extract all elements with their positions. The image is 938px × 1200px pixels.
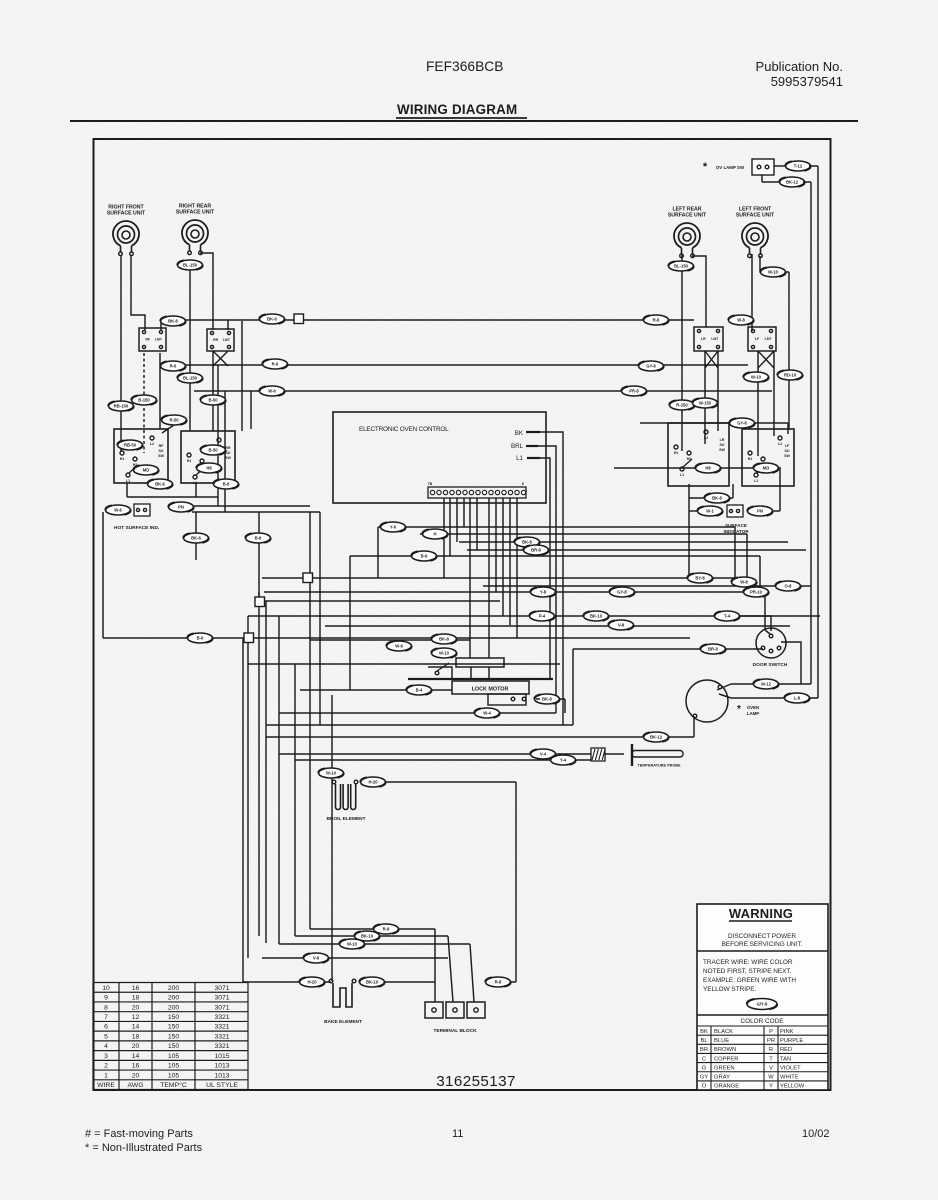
svg-text:BK-12: BK-12 xyxy=(650,735,663,740)
svg-text:L1: L1 xyxy=(516,455,523,462)
svg-text:C: C xyxy=(702,1056,706,1062)
svg-text:W-10: W-10 xyxy=(347,942,358,947)
svg-text:L2: L2 xyxy=(150,442,154,446)
svg-text:BK-12: BK-12 xyxy=(786,180,799,185)
svg-text:TRACER WIRE: WIRE COLOR: TRACER WIRE: WIRE COLOR xyxy=(703,959,793,966)
svg-text:1013: 1013 xyxy=(214,1072,229,1079)
svg-text:UL STYLE: UL STYLE xyxy=(206,1082,238,1089)
svg-text:L2: L2 xyxy=(778,442,782,446)
svg-text:W-8: W-8 xyxy=(740,580,748,585)
svg-text:10: 10 xyxy=(102,985,110,992)
svg-text:RED: RED xyxy=(780,1047,792,1053)
svg-text:PR-8: PR-8 xyxy=(629,389,639,394)
svg-text:DISCONNECT POWER: DISCONNECT POWER xyxy=(728,933,796,940)
svg-text:W-1: W-1 xyxy=(706,509,714,514)
svg-text:3321: 3321 xyxy=(214,1014,229,1021)
svg-text:TEMPERATURE PROBE: TEMPERATURE PROBE xyxy=(637,764,681,768)
svg-text:BK-10: BK-10 xyxy=(366,980,379,985)
svg-text:RB-150: RB-150 xyxy=(114,404,129,409)
svg-text:TEMP°C: TEMP°C xyxy=(160,1081,187,1089)
svg-text:18: 18 xyxy=(132,995,140,1002)
svg-text:BL-150: BL-150 xyxy=(674,264,689,269)
svg-text:BR: BR xyxy=(700,1047,708,1053)
svg-text:3321: 3321 xyxy=(214,1024,229,1031)
svg-text:BEFORE SERVICING UNIT.: BEFORE SERVICING UNIT. xyxy=(722,941,803,948)
svg-text:BK-10: BK-10 xyxy=(361,934,374,939)
svg-text:3071: 3071 xyxy=(214,995,229,1002)
svg-text:L1: L1 xyxy=(754,479,758,483)
svg-text:H-20: H-20 xyxy=(307,980,317,985)
svg-text:G/Y-8: G/Y-8 xyxy=(757,1002,768,1007)
svg-text:B-50: B-50 xyxy=(208,398,218,403)
svg-text:L1: L1 xyxy=(193,481,197,485)
svg-text:14: 14 xyxy=(132,1024,140,1031)
svg-text:SURFACE UNIT: SURFACE UNIT xyxy=(668,213,707,219)
svg-text:R: R xyxy=(769,1047,773,1053)
svg-text:EXAMPLE: GREEN WIRE WITH: EXAMPLE: GREEN WIRE WITH xyxy=(703,977,796,984)
svg-text:O-8: O-8 xyxy=(785,584,793,589)
svg-text:SU: SU xyxy=(159,449,164,453)
svg-text:3: 3 xyxy=(104,1053,108,1060)
svg-text:WIRE: WIRE xyxy=(97,1082,115,1089)
svg-text:BK: BK xyxy=(515,430,524,437)
svg-text:B-6: B-6 xyxy=(197,636,204,641)
svg-text:P-4: P-4 xyxy=(539,614,546,619)
svg-text:PR: PR xyxy=(767,1038,775,1044)
svg-text:3071: 3071 xyxy=(214,985,229,992)
svg-text:SURFACE UNIT: SURFACE UNIT xyxy=(176,210,215,216)
svg-text:150: 150 xyxy=(168,1024,180,1031)
svg-text:T-4: T-4 xyxy=(724,614,731,619)
svg-text:SU: SU xyxy=(785,449,790,453)
svg-text:BL-150: BL-150 xyxy=(183,376,198,381)
svg-text:12: 12 xyxy=(132,1014,140,1021)
svg-text:200: 200 xyxy=(168,1004,180,1011)
svg-text:105: 105 xyxy=(168,1063,180,1070)
svg-text:W-10: W-10 xyxy=(768,270,779,275)
svg-text:GY: GY xyxy=(700,1075,709,1081)
svg-text:R-150: R-150 xyxy=(676,403,688,408)
svg-text:SU: SU xyxy=(720,443,725,447)
svg-text:BY-8: BY-8 xyxy=(695,576,705,581)
svg-text:B-50: B-50 xyxy=(208,448,218,453)
svg-text:200: 200 xyxy=(168,985,180,992)
svg-text:BK-10: BK-10 xyxy=(590,614,603,619)
svg-text:3321: 3321 xyxy=(214,1043,229,1050)
svg-text:H8: H8 xyxy=(206,466,212,471)
svg-text:H: H xyxy=(433,532,436,537)
svg-text:BROWN: BROWN xyxy=(714,1047,736,1053)
svg-text:B-6: B-6 xyxy=(421,554,428,559)
svg-text:BLUE: BLUE xyxy=(714,1038,729,1044)
svg-text:COPPER: COPPER xyxy=(714,1056,738,1062)
svg-text:W-150: W-150 xyxy=(699,401,712,406)
svg-text:1015: 1015 xyxy=(214,1053,229,1060)
svg-text:# = Fast-moving Parts: # = Fast-moving Parts xyxy=(85,1128,193,1140)
svg-text:LMT: LMT xyxy=(223,338,231,342)
svg-text:LR: LR xyxy=(701,337,706,341)
svg-text:WARNING: WARNING xyxy=(729,906,793,921)
svg-text:3071: 3071 xyxy=(214,1004,229,1011)
svg-text:V-8: V-8 xyxy=(313,956,320,961)
svg-text:5995379541: 5995379541 xyxy=(771,74,843,89)
svg-text:LAMP: LAMP xyxy=(747,711,760,716)
svg-text:LMT: LMT xyxy=(155,338,163,342)
svg-text:NOTED FIRST, STRIPE NEXT.: NOTED FIRST, STRIPE NEXT. xyxy=(703,968,792,975)
svg-text:GRAY: GRAY xyxy=(714,1075,730,1081)
svg-text:WHITE: WHITE xyxy=(780,1075,799,1081)
svg-text:SW: SW xyxy=(158,454,164,458)
svg-text:BROIL ELEMENT: BROIL ELEMENT xyxy=(326,816,365,822)
svg-text:SW: SW xyxy=(784,454,790,458)
svg-text:BL: BL xyxy=(700,1038,708,1044)
svg-text:BLACK: BLACK xyxy=(714,1029,733,1035)
svg-text:RR: RR xyxy=(213,338,218,342)
svg-text:H1: H1 xyxy=(674,451,679,455)
svg-text:L1: L1 xyxy=(126,479,130,483)
svg-text:150: 150 xyxy=(168,1043,180,1050)
svg-text:H1: H1 xyxy=(120,457,125,461)
svg-text:9: 9 xyxy=(104,995,108,1002)
svg-text:LMT: LMT xyxy=(765,337,773,341)
svg-text:1013: 1013 xyxy=(214,1063,229,1070)
svg-text:R-6: R-6 xyxy=(170,364,177,369)
svg-text:OV LAMP SW: OV LAMP SW xyxy=(716,165,745,170)
svg-text:SW: SW xyxy=(225,456,231,460)
svg-text:T-12: T-12 xyxy=(794,164,803,169)
svg-text:INDICATOR: INDICATOR xyxy=(723,529,749,534)
svg-text:R-8: R-8 xyxy=(383,927,390,932)
svg-text:B-150: B-150 xyxy=(138,398,150,403)
svg-text:PN: PN xyxy=(178,505,184,510)
svg-text:PINK: PINK xyxy=(780,1029,794,1035)
svg-text:*: * xyxy=(737,704,741,715)
svg-text:H8: H8 xyxy=(705,466,711,471)
svg-text:7: 7 xyxy=(104,1014,108,1021)
svg-text:18: 18 xyxy=(132,1033,140,1040)
svg-text:TERMINAL BLOCK: TERMINAL BLOCK xyxy=(433,1028,477,1034)
svg-text:200: 200 xyxy=(168,995,180,1002)
svg-text:1: 1 xyxy=(104,1072,108,1079)
svg-text:COLOR CODE: COLOR CODE xyxy=(741,1018,784,1025)
svg-text:BK-6: BK-6 xyxy=(155,482,165,487)
svg-text:2: 2 xyxy=(104,1063,108,1070)
svg-text:3321: 3321 xyxy=(214,1033,229,1040)
svg-text:10/02: 10/02 xyxy=(802,1128,830,1140)
svg-text:L-8: L-8 xyxy=(794,696,801,701)
svg-text:YELLOW: YELLOW xyxy=(780,1084,805,1090)
svg-text:H1: H1 xyxy=(748,457,753,461)
svg-text:AWG: AWG xyxy=(128,1082,144,1089)
svg-text:SW: SW xyxy=(719,448,725,452)
svg-text:OVEN: OVEN xyxy=(747,705,759,710)
svg-text:W-6: W-6 xyxy=(395,644,403,649)
svg-text:PURPLE: PURPLE xyxy=(780,1038,803,1044)
svg-text:O: O xyxy=(702,1084,707,1090)
svg-text:T: T xyxy=(769,1056,773,1062)
svg-text:V-8: V-8 xyxy=(618,623,625,628)
svg-text:RB-50: RB-50 xyxy=(124,443,137,448)
svg-text:R-6: R-6 xyxy=(272,362,279,367)
svg-text:B-4: B-4 xyxy=(416,688,423,693)
svg-text:SURFACE UNIT: SURFACE UNIT xyxy=(736,213,775,219)
svg-text:HOT SURFACE IND.: HOT SURFACE IND. xyxy=(114,525,159,531)
svg-text:RD-10: RD-10 xyxy=(784,373,797,378)
svg-text:150: 150 xyxy=(168,1033,180,1040)
svg-text:W-12: W-12 xyxy=(761,682,772,687)
svg-text:R-8: R-8 xyxy=(653,318,660,323)
svg-text:GY-8: GY-8 xyxy=(617,590,627,595)
svg-text:Y-6: Y-6 xyxy=(390,525,397,530)
svg-text:* = Non-Illustrated Parts: * = Non-Illustrated Parts xyxy=(85,1142,203,1154)
svg-text:ORANGE: ORANGE xyxy=(714,1084,739,1090)
svg-text:105: 105 xyxy=(168,1053,180,1060)
svg-text:W-8: W-8 xyxy=(737,318,745,323)
svg-text:ELECTRONIC OVEN CONTROL: ELECTRONIC OVEN CONTROL xyxy=(359,426,449,433)
svg-text:H-20: H-20 xyxy=(368,780,378,785)
svg-text:Y-4: Y-4 xyxy=(560,758,567,763)
svg-text:W: W xyxy=(768,1075,774,1081)
svg-text:16: 16 xyxy=(132,1063,140,1070)
svg-text:YELLOW STRIPE.: YELLOW STRIPE. xyxy=(703,986,756,993)
svg-text:R-50: R-50 xyxy=(169,418,179,423)
svg-text:BK-6: BK-6 xyxy=(191,536,201,541)
svg-text:WIRING DIAGRAM: WIRING DIAGRAM xyxy=(397,102,517,117)
svg-text:*: * xyxy=(703,161,708,173)
svg-text:FEF366BCB: FEF366BCB xyxy=(426,59,503,74)
svg-text:BK-6: BK-6 xyxy=(267,317,277,322)
svg-text:4: 4 xyxy=(104,1043,108,1050)
svg-text:GREEN: GREEN xyxy=(714,1065,735,1071)
svg-text:L1: L1 xyxy=(680,473,684,477)
svg-text:TAN: TAN xyxy=(780,1056,791,1062)
svg-text:B-6: B-6 xyxy=(223,482,230,487)
svg-text:105: 105 xyxy=(168,1072,180,1079)
svg-text:SURFACE: SURFACE xyxy=(725,523,747,528)
svg-text:TB: TB xyxy=(428,482,433,486)
svg-text:LR: LR xyxy=(720,438,725,442)
svg-text:20: 20 xyxy=(132,1043,140,1050)
svg-text:MD: MD xyxy=(763,466,770,471)
svg-text:Y-8: Y-8 xyxy=(540,590,547,595)
svg-text:V-4: V-4 xyxy=(540,752,547,757)
svg-text:LMT: LMT xyxy=(711,337,719,341)
svg-text:16: 16 xyxy=(132,985,140,992)
svg-text:BR-8: BR-8 xyxy=(531,548,541,553)
svg-text:GY-8: GY-8 xyxy=(646,364,656,369)
svg-text:L2: L2 xyxy=(704,436,708,440)
svg-text:5: 5 xyxy=(104,1033,108,1040)
svg-text:8: 8 xyxy=(104,1004,108,1011)
svg-text:BK-8: BK-8 xyxy=(439,637,449,642)
svg-text:BK-8: BK-8 xyxy=(712,496,722,501)
svg-text:R-8: R-8 xyxy=(495,980,502,985)
svg-text:RF: RF xyxy=(145,338,150,342)
svg-text:G: G xyxy=(702,1065,707,1071)
svg-text:V: V xyxy=(769,1065,773,1071)
svg-text:SURFACE UNIT: SURFACE UNIT xyxy=(107,211,146,217)
svg-text:Y: Y xyxy=(769,1084,773,1090)
svg-text:BR-8: BR-8 xyxy=(708,647,718,652)
svg-text:Publication No.: Publication No. xyxy=(756,59,843,74)
svg-text:W-6: W-6 xyxy=(268,389,276,394)
svg-text:BK: BK xyxy=(700,1029,708,1035)
svg-text:316255137: 316255137 xyxy=(436,1073,516,1090)
svg-text:BK-8: BK-8 xyxy=(522,540,532,545)
svg-text:BAKE ELEMENT: BAKE ELEMENT xyxy=(324,1019,362,1025)
svg-text:MD: MD xyxy=(143,468,150,473)
svg-text:P: P xyxy=(769,1029,773,1035)
svg-text:VIOLET: VIOLET xyxy=(780,1065,801,1071)
svg-text:W-4: W-4 xyxy=(483,711,491,716)
svg-text:PR-10: PR-10 xyxy=(750,590,763,595)
svg-text:H1: H1 xyxy=(187,459,192,463)
svg-text:14: 14 xyxy=(132,1053,140,1060)
svg-text:GY-8: GY-8 xyxy=(737,421,747,426)
svg-text:BL-150: BL-150 xyxy=(183,263,198,268)
svg-text:BK-6: BK-6 xyxy=(168,319,178,324)
svg-text:RF: RF xyxy=(159,444,165,448)
svg-text:W-10: W-10 xyxy=(751,375,762,380)
svg-text:DOOR SWITCH: DOOR SWITCH xyxy=(753,662,788,668)
svg-text:20: 20 xyxy=(132,1004,140,1011)
svg-text:LF: LF xyxy=(755,337,759,341)
svg-text:6: 6 xyxy=(522,482,524,486)
svg-text:W-6: W-6 xyxy=(114,508,122,513)
svg-text:BRL: BRL xyxy=(511,443,524,450)
svg-text:PN: PN xyxy=(757,509,763,514)
svg-text:BK-8: BK-8 xyxy=(542,697,552,702)
svg-text:11: 11 xyxy=(452,1128,463,1140)
svg-text:W-10: W-10 xyxy=(326,771,337,776)
svg-text:W-10: W-10 xyxy=(439,651,450,656)
svg-text:150: 150 xyxy=(168,1014,180,1021)
svg-text:B-6: B-6 xyxy=(255,536,262,541)
svg-text:LOCK MOTOR: LOCK MOTOR xyxy=(472,687,509,693)
svg-text:20: 20 xyxy=(132,1072,140,1079)
svg-text:6: 6 xyxy=(104,1024,108,1031)
